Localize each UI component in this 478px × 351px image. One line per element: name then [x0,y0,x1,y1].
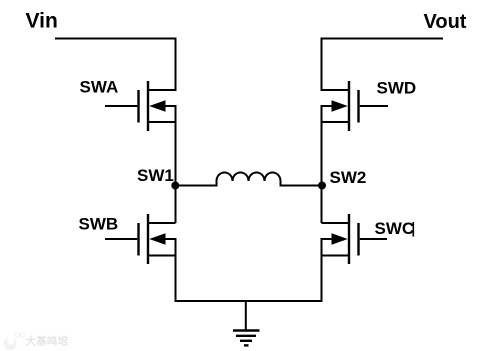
SWA drain lead [148,89,176,91]
svg-text:Vin: Vin [26,10,58,33]
SWC body arrow [332,233,348,245]
ground bar 3 [240,340,252,342]
SWB source lead [148,255,176,257]
SWD gate bar [357,90,359,123]
ground bar 4 [244,344,249,346]
svg-text:SW2: SW2 [330,168,367,187]
SWB body lead [164,238,177,240]
SWC source lead [322,255,350,257]
svg-text:SW1: SW1 [137,166,174,185]
SWA gate lead [105,105,137,107]
svg-text:大基鸣培: 大基鸣培 [26,335,69,348]
SWA gate bar [137,90,139,123]
SWB gate bar [137,223,139,256]
transistor SWC [321,214,388,264]
SWC gate bar [357,223,359,256]
SWC body lead [321,238,334,240]
node SW2 junction dot [318,182,326,190]
wire SWC source down to ground rail [321,239,323,302]
ground symbol [233,331,260,346]
SWC drain lead [322,222,350,224]
wire right vertical Vout to SWD drain [321,38,323,92]
svg-text:SWB: SWB [79,215,119,234]
wire SWD source down to node SW2 [321,106,323,186]
wire top rail to Vout [321,38,444,40]
SWB drain lead [148,222,176,224]
text cursor artifact after SWC [413,222,415,237]
transistor SWB [105,214,177,264]
SWA source lead [148,121,176,123]
ground bar 2 [236,335,256,337]
SWD body arrow [332,100,348,112]
transistor SWD [321,81,389,131]
SWA body lead [164,105,177,107]
SWA body arrow [149,100,165,112]
SWD drain lead [322,89,350,91]
SWC gate lead [360,238,387,240]
SWD source lead [322,121,350,123]
wire ground stem [245,301,247,331]
svg-text:SWD: SWD [377,79,417,98]
wire left vertical Vin to SWA drain [175,38,177,92]
wire node SW1 down to SWB drain [175,186,177,224]
svg-text:Vout: Vout [424,11,467,33]
SWA channel bar [147,81,149,131]
svg-text:SWA: SWA [80,78,119,97]
SWC channel bar [348,214,350,264]
wire top rail from Vin [55,38,177,40]
wire bottom ground rail [175,300,323,302]
wire SWA source down to node SW1 [175,106,177,186]
inductor L between SW1 and SW2 [176,173,322,186]
SWB gate lead [105,238,137,240]
watermark logo bottom-left [4,333,69,351]
SWD body lead [321,105,334,107]
SWD gate lead [360,105,388,107]
wire node SW2 down to SWC drain [321,186,323,224]
ground bar 1 [233,329,260,331]
wire SWB source down to ground rail [175,239,177,302]
SWB body arrow [149,233,165,245]
transistor SWA [105,81,177,131]
SWD channel bar [348,81,350,131]
node SW1 junction dot [171,182,179,190]
SWB channel bar [147,214,149,264]
svg-text:SWC: SWC [375,219,415,238]
